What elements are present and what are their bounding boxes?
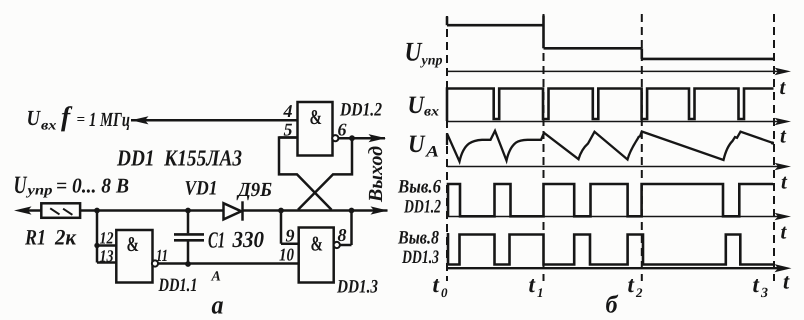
svg-text:=: =: [77, 112, 86, 128]
svg-text:4: 4: [283, 101, 293, 121]
svg-text:Выход: Выход: [365, 146, 387, 203]
svg-text:Д9Б: Д9Б: [236, 179, 272, 201]
svg-text:DD1.2: DD1.2: [339, 100, 382, 121]
svg-text:8: 8: [338, 225, 347, 245]
svg-text:U: U: [408, 131, 426, 158]
svg-text:t: t: [781, 170, 788, 194]
svg-text:DD1.3: DD1.3: [401, 247, 439, 268]
svg-text:DD1 К155ЛА3: DD1 К155ЛА3: [116, 146, 242, 171]
svg-text:t: t: [781, 220, 788, 244]
svg-text:&: &: [127, 232, 140, 256]
svg-text:А: А: [211, 270, 221, 285]
svg-text:9: 9: [286, 226, 295, 246]
svg-text:DD1.2: DD1.2: [403, 197, 441, 218]
svg-text:10: 10: [279, 245, 294, 265]
svg-text:2к: 2к: [54, 225, 77, 250]
svg-text:R1: R1: [24, 225, 46, 250]
svg-text:330: 330: [232, 227, 265, 252]
svg-text:Выв.8: Выв.8: [397, 228, 439, 249]
svg-text:DD1.3: DD1.3: [336, 277, 378, 298]
svg-text:VD1: VD1: [185, 178, 218, 200]
svg-text:1 МГц: 1 МГц: [89, 109, 130, 131]
svg-text:вх: вх: [41, 119, 57, 134]
svg-text:11: 11: [156, 246, 168, 265]
svg-text:упр: упр: [25, 184, 52, 199]
svg-text:6: 6: [338, 120, 347, 140]
svg-text:1: 1: [537, 285, 544, 300]
svg-text:U: U: [27, 106, 42, 130]
svg-text:t: t: [753, 272, 760, 297]
svg-text:б: б: [606, 292, 619, 319]
svg-text:упр: упр: [420, 54, 443, 69]
svg-text:вх: вх: [424, 105, 439, 120]
svg-text:5: 5: [284, 120, 293, 140]
svg-text:С1: С1: [208, 228, 225, 253]
svg-text:А: А: [425, 144, 440, 161]
svg-text:= 0... 8 В: = 0... 8 В: [56, 174, 129, 198]
svg-text:12: 12: [100, 229, 114, 248]
svg-text:t: t: [628, 272, 635, 297]
svg-text:t: t: [780, 124, 787, 148]
svg-text:а: а: [212, 291, 224, 320]
svg-text:Выв.6: Выв.6: [397, 177, 441, 198]
svg-text:U: U: [405, 37, 423, 67]
svg-text:U: U: [14, 172, 28, 199]
svg-text:t: t: [783, 269, 790, 294]
svg-text:DD1.1: DD1.1: [158, 275, 198, 296]
svg-text:0: 0: [441, 285, 448, 300]
svg-text:&: &: [310, 105, 323, 129]
svg-text:f: f: [61, 101, 73, 132]
svg-text:t: t: [780, 75, 787, 99]
svg-text:3: 3: [760, 286, 768, 301]
svg-text:2: 2: [635, 285, 643, 300]
svg-text:t: t: [433, 272, 440, 297]
svg-text:13: 13: [100, 247, 114, 266]
svg-text:&: &: [311, 232, 324, 256]
svg-text:t: t: [529, 272, 536, 297]
